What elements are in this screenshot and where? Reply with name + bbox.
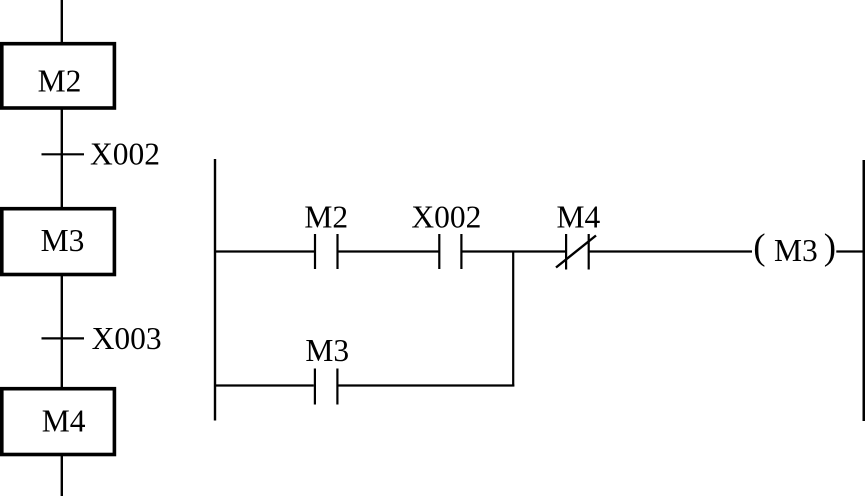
- svg-text:): ): [824, 227, 836, 268]
- svg-text:M3: M3: [774, 233, 818, 268]
- svg-text:M2: M2: [38, 63, 82, 98]
- svg-text:(: (: [753, 227, 765, 268]
- svg-text:X002: X002: [90, 137, 160, 172]
- svg-text:X003: X003: [92, 321, 162, 356]
- svg-text:M4: M4: [42, 404, 86, 439]
- svg-text:M3: M3: [41, 223, 85, 258]
- svg-text:M4: M4: [557, 199, 601, 234]
- svg-text:X002: X002: [411, 199, 481, 234]
- svg-text:M2: M2: [304, 199, 348, 234]
- svg-text:M3: M3: [305, 333, 349, 368]
